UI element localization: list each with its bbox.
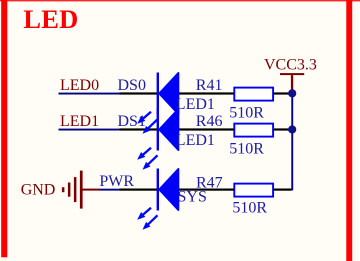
svg-text:GND: GND [21, 182, 56, 199]
pin wire R47 right [274, 189, 292, 191]
wire LED1 (blue segment) [59, 129, 120, 131]
svg-text:PWR: PWR [99, 173, 134, 190]
pin wire anode DS0 [179, 92, 234, 94]
LED DS1 light arrows [137, 148, 157, 170]
pin wire anode DS1 [179, 128, 234, 130]
resistor R41 [234, 88, 273, 101]
svg-text:LED1: LED1 [176, 132, 215, 149]
LED DS0 light arrows [137, 112, 157, 134]
svg-text:LED: LED [23, 4, 78, 34]
svg-text:510R: 510R [229, 141, 264, 158]
svg-text:R41: R41 [196, 77, 223, 94]
border: left red band [1, 0, 7, 257]
junction node row1 [288, 89, 296, 97]
resistor R47 [234, 184, 273, 197]
junction node row2 [288, 125, 296, 133]
pin wire anode PWR LED [179, 189, 234, 191]
svg-text:LED1: LED1 [60, 113, 99, 130]
svg-text:R46: R46 [196, 113, 223, 130]
border: top red line [0, 0, 360, 1]
wire VCC vertical bus [291, 94, 293, 191]
power VCC3.3 stem [291, 75, 293, 93]
wire PWR (blue segment) [100, 189, 120, 191]
svg-text:DS0: DS0 [118, 77, 146, 94]
svg-text:510R: 510R [229, 105, 264, 122]
LED DS0 [157, 73, 179, 115]
border: right red band [346, 0, 352, 261]
resistor R46 [234, 124, 273, 137]
pin wire DS1 LED (black segment) [120, 128, 158, 130]
LED PWR/SYS [157, 169, 179, 211]
svg-text:VCC3.3: VCC3.3 [264, 57, 317, 74]
pin wire PWR LED (black segment) [120, 189, 158, 191]
svg-text:SYS: SYS [178, 189, 207, 206]
power VCC3.3 bar [280, 73, 304, 75]
pin wire R41 right [274, 92, 292, 94]
LED DS1 [157, 109, 179, 151]
svg-text:510R: 510R [232, 199, 267, 216]
pin wire DS0 LED (black segment) [120, 92, 158, 94]
svg-text:LED1: LED1 [176, 96, 215, 113]
wire LED0 (blue segment) [59, 93, 120, 95]
LED PWR light arrows [137, 208, 157, 230]
ground symbol bars [62, 171, 100, 209]
svg-text:LED0: LED0 [60, 77, 99, 94]
pin wire R46 right [274, 128, 292, 130]
